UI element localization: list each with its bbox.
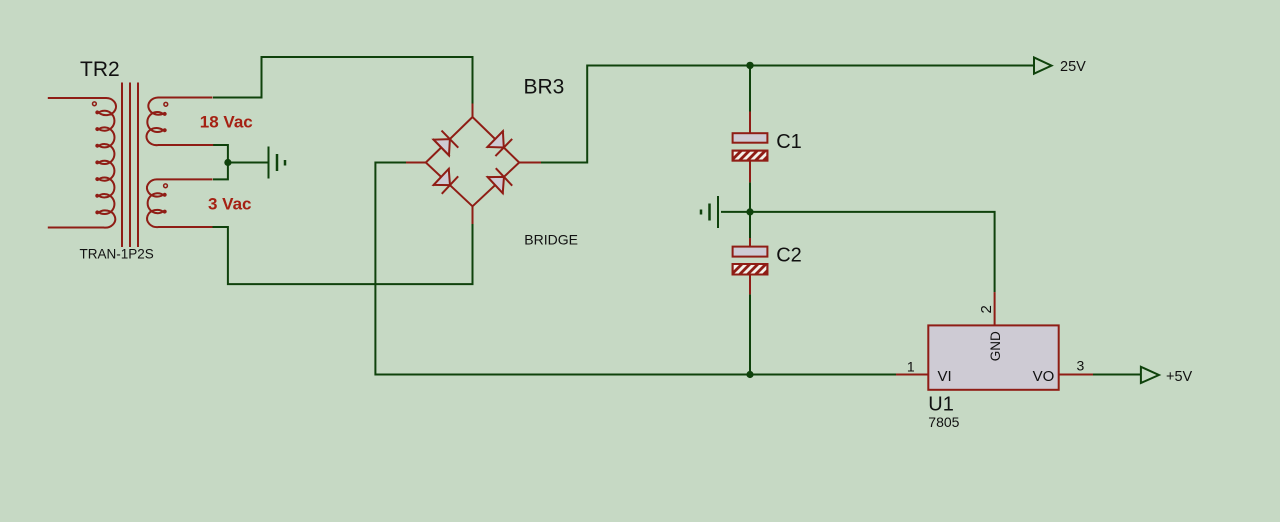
- svg-text:BRIDGE: BRIDGE: [524, 232, 578, 248]
- svg-text:GND: GND: [988, 331, 1003, 361]
- svg-text:25V: 25V: [1060, 59, 1086, 75]
- svg-text:BR3: BR3: [524, 76, 565, 99]
- svg-text:TR2: TR2: [80, 58, 120, 81]
- svg-text:C2: C2: [776, 244, 802, 266]
- svg-text:1: 1: [907, 359, 915, 375]
- svg-text:VO: VO: [1033, 368, 1055, 385]
- svg-text:VI: VI: [938, 368, 952, 385]
- svg-text:7805: 7805: [928, 414, 959, 430]
- svg-text:2: 2: [978, 305, 995, 313]
- svg-text:18 Vac: 18 Vac: [200, 113, 253, 132]
- svg-text:C1: C1: [776, 131, 802, 153]
- svg-text:U1: U1: [928, 393, 954, 415]
- svg-text:+5V: +5V: [1166, 369, 1193, 385]
- svg-text:3: 3: [1077, 358, 1085, 374]
- svg-text:3 Vac: 3 Vac: [208, 194, 252, 213]
- svg-text:TRAN-1P2S: TRAN-1P2S: [80, 247, 154, 262]
